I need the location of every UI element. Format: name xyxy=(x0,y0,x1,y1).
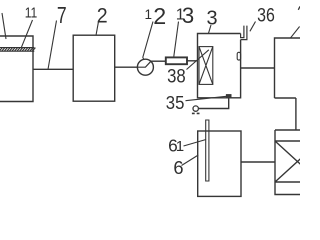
wire box1-box2 (pipe 7) xyxy=(33,68,73,70)
svg-text:3: 3 xyxy=(207,8,218,30)
wire pump-13 xyxy=(151,60,166,62)
leader 61 xyxy=(184,140,207,147)
pump 12 (circle) xyxy=(137,59,153,75)
svg-text:35: 35 xyxy=(166,92,185,113)
svg-text:11: 11 xyxy=(25,6,38,22)
box 3 (with pipe 36 notch at top right) xyxy=(198,34,241,98)
svg-text:1: 1 xyxy=(176,138,184,155)
leader of cut-off label (top-left) xyxy=(2,13,6,39)
wire box6-exchanger xyxy=(241,161,275,163)
wire 13-box3 xyxy=(187,60,198,62)
component 13 (small rectangle) xyxy=(166,57,187,64)
pump omega symbol below box 3 xyxy=(193,106,198,111)
leader 11 xyxy=(21,20,33,48)
hatched strip 11 (filter plate inside box 1) xyxy=(0,48,35,52)
pipe 36 (double-line elbow on box 3) xyxy=(241,26,247,40)
leader 6 xyxy=(182,155,199,166)
heat exchanger (X box, cut off at right) xyxy=(275,130,302,195)
box 4 (right box, cut off) xyxy=(275,38,303,98)
svg-text:3: 3 xyxy=(182,3,194,28)
leader 36 xyxy=(250,22,256,32)
port notch on right wall of box 3 xyxy=(237,52,240,60)
inner element of box3 (X-crossed rect, target of 38) xyxy=(199,47,213,85)
leader of cut-off right label xyxy=(290,27,299,39)
leader 12 xyxy=(143,22,153,60)
leader 13 xyxy=(174,22,179,57)
svg-text:2: 2 xyxy=(97,5,108,28)
box 6 xyxy=(198,131,241,196)
fragment of cut-off right label xyxy=(298,6,300,9)
box 1 (tank, cut off at left) xyxy=(0,36,33,102)
leader 3 xyxy=(209,25,212,33)
svg-text:6: 6 xyxy=(173,157,183,178)
svg-text:36: 36 xyxy=(257,5,275,26)
svg-text:2: 2 xyxy=(153,3,166,29)
wire box2-pump xyxy=(115,66,138,68)
electrode strip 61 (inside box 6) xyxy=(206,120,209,181)
wire box3-box4 xyxy=(241,67,275,69)
leader 7 xyxy=(48,21,57,70)
svg-text:7: 7 xyxy=(57,2,67,28)
wire box4 down to exchanger xyxy=(295,98,297,130)
leader 38 xyxy=(187,50,209,70)
box 2 xyxy=(73,35,115,101)
leader 35 xyxy=(186,96,227,100)
leader 2 xyxy=(96,22,99,36)
port 35 (small block on box 3 bottom) xyxy=(226,95,231,98)
svg-text:38: 38 xyxy=(167,66,186,87)
wire pump-port35 xyxy=(198,98,228,109)
svg-text:1: 1 xyxy=(145,7,153,22)
